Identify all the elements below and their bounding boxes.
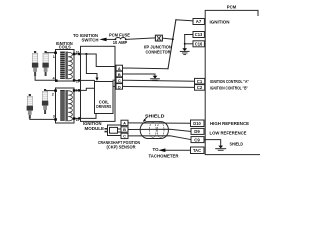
T2 pin ticks <box>54 89 57 92</box>
wire pin B to ground <box>123 74 156 76</box>
cable shield <box>140 122 168 139</box>
spark plug SP4 <box>42 89 48 114</box>
T2 secondary winding <box>68 91 72 121</box>
wire coil primary 1 into drivers <box>81 79 95 81</box>
shield label arrow <box>144 118 147 121</box>
wire junction connector to riser <box>163 38 173 39</box>
svg-text:SHIELD: SHIELD <box>230 141 244 146</box>
spark plug SP3 <box>27 94 33 118</box>
ignition coil T1 <box>56 50 75 82</box>
wire C9 to shield ground <box>204 140 221 146</box>
svg-text:A: A <box>123 121 126 126</box>
T1 secondary winding <box>68 52 72 78</box>
T2 core <box>65 91 67 121</box>
svg-text:MODULE: MODULE <box>85 126 105 131</box>
svg-text:1: 1 <box>53 55 55 59</box>
svg-text:C16: C16 <box>195 42 203 47</box>
svg-text:10: 10 <box>76 89 79 93</box>
svg-text:TAC: TAC <box>193 148 201 153</box>
wire fuse to junction connector <box>126 38 155 40</box>
to-ignition-switch arrow <box>99 38 106 42</box>
svg-text:D10: D10 <box>193 121 201 126</box>
wire SP4 top to coil pin 2 <box>46 90 55 92</box>
wire coil primary 2 into drivers <box>81 88 95 90</box>
svg-text:PCM FUSE: PCM FUSE <box>109 33 130 38</box>
wire coil T2 lower pin to module <box>75 117 80 119</box>
svg-text:B: B <box>123 127 126 132</box>
wire coil T2 return into drivers bottom <box>81 114 97 119</box>
wire riser top to A7 <box>176 20 193 21</box>
diagonal riser to PCM A7 feed <box>168 20 176 69</box>
svg-text:B: B <box>118 72 121 77</box>
PCM pin box C9 <box>191 137 204 143</box>
svg-text:C: C <box>123 134 126 139</box>
CKP connector box A <box>121 120 128 125</box>
ground for module pin B <box>151 76 160 81</box>
svg-text:TO: TO <box>153 147 160 152</box>
svg-text:IGNITION CONTROL "B": IGNITION CONTROL "B" <box>210 85 248 90</box>
shield ground in PCM <box>216 146 226 151</box>
T1 primary winding <box>60 52 65 80</box>
svg-text:D9: D9 <box>194 129 200 134</box>
svg-text:SHIELD: SHIELD <box>145 113 165 118</box>
module pin box B <box>116 71 123 77</box>
PCM pin box D9 <box>191 128 204 134</box>
svg-text:SWITCH: SWITCH <box>82 38 99 43</box>
I/P junction connector <box>155 35 162 41</box>
wire C16 to ground bus <box>185 43 193 45</box>
junction dot on riser <box>172 38 174 40</box>
svg-text:PCM: PCM <box>227 4 237 9</box>
wire drivers to pin D <box>113 85 116 87</box>
svg-text:10 AMP: 10 AMP <box>113 40 128 45</box>
wire CKP A to PCM D10 high reference <box>128 122 191 124</box>
T2 primary winding <box>60 90 65 121</box>
wire drivers to pin C <box>113 79 116 81</box>
module left edge pin ticks <box>78 53 80 55</box>
spark plug SP2 <box>42 51 48 76</box>
ground bus vertical <box>184 35 186 49</box>
PCM pin box D10 <box>191 120 205 127</box>
svg-text:3: 3 <box>53 115 55 119</box>
svg-text:(CKP) SENSOR: (CKP) SENSOR <box>107 145 136 150</box>
wire SP3 bottom to coil pin 3 <box>30 118 56 120</box>
svg-text:LOW REFERENCE: LOW REFERENCE <box>210 131 247 136</box>
ground for C13/C16 <box>180 48 189 54</box>
svg-text:CONNECTOR: CONNECTOR <box>146 49 171 54</box>
svg-text:C1: C1 <box>197 79 203 84</box>
CKP connector box C <box>121 133 128 138</box>
spark plug SP1 <box>32 51 38 76</box>
PCM box outline <box>205 10 259 154</box>
wire CKP C to PCM C9 <box>128 136 191 140</box>
wire TAC to tachometer arrow <box>165 149 191 151</box>
coil drivers box <box>95 82 114 114</box>
svg-text:A: A <box>118 66 121 71</box>
svg-text:D: D <box>118 84 121 89</box>
wire W1 module feed to pin A <box>81 54 117 67</box>
wire C13 to ground bus <box>185 34 193 36</box>
PCM pin box C1 <box>195 78 205 84</box>
wire coil T1 lower pin to module <box>75 79 80 81</box>
ignition coil T2 <box>56 88 75 123</box>
wire pin D to PCM C2 <box>123 86 195 87</box>
T1 core <box>65 52 67 79</box>
junction dot <box>85 53 87 55</box>
CKP connector box B <box>121 127 128 132</box>
svg-text:10: 10 <box>76 51 79 55</box>
T1 pin ticks <box>54 52 57 55</box>
svg-text:10: 10 <box>76 118 79 122</box>
PCM pin box TAC <box>191 147 205 154</box>
PCM pin box C13 <box>193 32 204 38</box>
svg-text:C2: C2 <box>197 85 203 90</box>
module pin box D <box>116 84 123 90</box>
svg-text:COILS: COILS <box>59 44 71 49</box>
svg-text:IGNITION: IGNITION <box>210 19 230 24</box>
svg-text:IGNITION CONTROL "A": IGNITION CONTROL "A" <box>210 79 249 84</box>
wire coil T2 upper pin to module <box>75 89 80 91</box>
svg-text:2: 2 <box>52 93 54 97</box>
svg-text:C13: C13 <box>195 32 203 37</box>
module pin box A <box>116 65 123 71</box>
PCM pin box C16 <box>193 41 204 47</box>
fuse PCM 10A <box>115 38 127 41</box>
svg-text:10: 10 <box>76 79 79 83</box>
svg-text:C: C <box>118 78 121 83</box>
PCM pin box A7 <box>193 19 204 25</box>
wire W2 feed into coil drivers <box>86 54 97 78</box>
PCM pin box C2 <box>195 85 205 91</box>
wire pin A to diagonal riser <box>123 67 169 70</box>
wire SP1 bottom to coil pin 4 <box>35 77 55 81</box>
svg-text:TACHOMETER: TACHOMETER <box>149 153 179 158</box>
wire CKP B to PCM D9 low reference <box>128 129 191 131</box>
wire pin C to PCM C1 <box>123 80 195 81</box>
svg-text:HIGH REFERENCE: HIGH REFERENCE <box>210 121 249 126</box>
wire coil T1 pin 10 to module <box>75 53 80 55</box>
svg-text:C9: C9 <box>194 137 200 142</box>
svg-text:A7: A7 <box>196 19 202 24</box>
wire arrow to fuse <box>107 38 116 40</box>
ignition module box <box>81 46 116 121</box>
wire SP2 top to coil pin 1 <box>47 52 56 54</box>
svg-text:DRIVERS: DRIVERS <box>96 104 111 109</box>
module pin box C <box>116 77 123 83</box>
CKP sensor body <box>105 125 122 136</box>
